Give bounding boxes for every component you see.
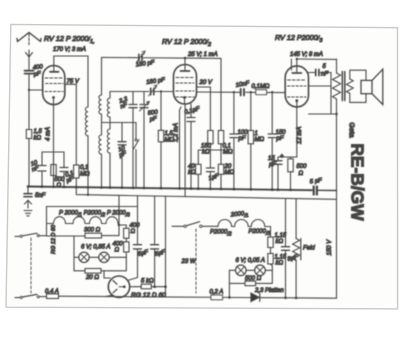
dial lamp L3: [229, 265, 246, 276]
svg-text:Ω: Ω: [299, 171, 304, 177]
resistor 1,15 kOhm upper: [268, 233, 287, 248]
field coil Feld: [293, 199, 316, 300]
svg-text:kΩ: kΩ: [276, 239, 284, 245]
output transformer secondary: [346, 79, 353, 93]
output transformer primary: [333, 59, 341, 114]
capacitor 8 uF electrolytic: [282, 198, 299, 299]
tube V1 grids (dashed): [45, 78, 63, 92]
tube V1 envelope: [43, 66, 65, 105]
capacitor 10 pF (band switch row): [118, 123, 128, 188]
svg-text:300 Ω: 300 Ω: [84, 228, 101, 234]
node V3 grid: [271, 91, 273, 93]
svg-text:5 kΩ: 5 kΩ: [141, 279, 154, 285]
resistor 1,15 kOhm lower: [268, 248, 287, 271]
svg-text:1,2 mA: 1,2 mA: [174, 123, 180, 142]
svg-text:kΩ: kΩ: [276, 261, 284, 267]
mains switch linkage left (dashed): [30, 238, 32, 293]
svg-text:20 V: 20 V: [199, 80, 213, 86]
speaker voice coil: [361, 80, 372, 93]
wire grid node to tube V1: [29, 89, 43, 91]
wire screen V1 to dropper: [65, 84, 77, 165]
svg-text:RG 12 D 60: RG 12 D 60: [51, 224, 57, 254]
tube V1 anode: [50, 56, 59, 72]
fuse 0,4 A: [45, 289, 59, 299]
node transformer bottom: [335, 113, 338, 116]
capacitor smoothing left: [129, 196, 149, 280]
resistor 0,1 MOhm (grid stopper): [252, 84, 270, 94]
tube V3 anode: [292, 58, 301, 73]
svg-text:nF: nF: [321, 72, 328, 78]
svg-text:25 V; 1 mA: 25 V; 1 mA: [187, 52, 218, 58]
dial lamp L1: [74, 252, 89, 262]
wire V2 output row to V3 grid: [197, 91, 286, 94]
mains switch upper pole: [15, 233, 47, 237]
svg-text:500 Ω: 500 Ω: [245, 276, 262, 282]
node V2 anode: [184, 57, 187, 60]
tube V3 top-cap grid stub: [290, 59, 292, 70]
capacitor 100 pF: [230, 92, 248, 189]
wire V3 anode to output transformer: [297, 58, 337, 60]
coil osc upper: [107, 92, 110, 118]
svg-text:Feld: Feld: [303, 246, 315, 252]
svg-text:µF: µF: [269, 162, 276, 168]
diode 23 Platten: [251, 288, 285, 302]
resistor 500 Ohm (cathode): [42, 152, 65, 189]
wire secondary to voice coil: [350, 70, 366, 102]
wire V3 cathode row: [278, 156, 297, 158]
wire lamp feed to rectifier filament: [104, 271, 110, 278]
capacitor 2,2 nF: [118, 92, 137, 188]
svg-text:1,5: 1,5: [34, 129, 43, 135]
node 100pF: [233, 91, 235, 93]
resistor 0,1 MOhm (V2 load): [218, 131, 233, 156]
wire V2 anode to load resistor: [185, 58, 221, 130]
tube V1 cathode: [52, 96, 55, 187]
tube V3 cathode: [295, 99, 298, 157]
earth terminal arrow: [25, 200, 32, 208]
mains switch linkage (dashed): [195, 229, 197, 293]
bottom bus: [59, 296, 337, 298]
coil osc lower: [107, 117, 110, 187]
svg-text:1,5: 1,5: [165, 131, 174, 137]
svg-text:6 V; 0,05 A: 6 V; 0,05 A: [236, 258, 265, 264]
coil IFT1 secondary lower: [99, 114, 102, 187]
capacitor 15 uF electrolytic: [268, 154, 284, 190]
svg-text:pF: pF: [148, 116, 157, 123]
resistor grid leak 1,5 kOhm: [26, 90, 42, 187]
svg-text:MΩ: MΩ: [80, 172, 90, 178]
capacitor 400pF (antenna series): [25, 64, 44, 78]
wire heater return to bus: [118, 195, 120, 225]
wire V3 screen to transformer bottom: [309, 85, 332, 87]
svg-text:12 mA: 12 mA: [297, 127, 303, 144]
capacitor 5 uF (bus series): [308, 178, 337, 195]
fuse 0,2 A: [210, 290, 224, 300]
resistor 400 Ohm upper: [119, 223, 140, 238]
rectifier tube RG 12 D 60: [108, 276, 129, 297]
heater return bus: [76, 187, 336, 199]
speaker cone: [372, 69, 383, 104]
dial lamp L2: [89, 252, 126, 262]
svg-text:23 W: 23 W: [181, 259, 197, 265]
wire lamp node to bus: [228, 283, 231, 298]
capacitor 0,1 uF (V2 cathode): [184, 104, 201, 189]
svg-text:pF: pF: [276, 136, 284, 142]
svg-text:RE-B/GW: RE-B/GW: [348, 143, 368, 221]
resistor 500 Ohm (lamp shunt): [229, 270, 272, 285]
svg-text:kΩ: kΩ: [188, 170, 196, 176]
svg-text:Ω: Ω: [115, 248, 120, 254]
svg-text:500: 500: [297, 164, 308, 170]
capacitor smoothing right: [151, 196, 167, 288]
transformer core: [342, 72, 345, 101]
svg-text:Geta: Geta: [348, 122, 355, 137]
svg-text:0,1: 0,1: [80, 165, 88, 171]
resistor 20 MOhm: [218, 150, 234, 189]
node heater bus start: [87, 194, 89, 196]
tube V2 heater stem: [184, 104, 186, 197]
wire osc tap row: [102, 122, 137, 124]
dial lamp L4: [246, 265, 272, 276]
svg-text:MΩ: MΩ: [223, 150, 233, 156]
tube V2 cathode: [180, 96, 186, 188]
resistor 400 Ohm lower: [113, 238, 130, 257]
ground bus (chassis): [28, 187, 312, 191]
mains switch lower pole: [15, 294, 47, 298]
wire grid row V2: [110, 91, 149, 93]
resistor 150 kOhm: [201, 131, 213, 156]
svg-text:145 V; 8 mA: 145 V; 8 mA: [290, 52, 323, 58]
svg-text:pF: pF: [32, 71, 41, 78]
tube V2 anode: [181, 58, 190, 71]
bus junction dots: [27, 185, 292, 191]
wire transformer bottom row: [309, 113, 337, 115]
capacitor 5 nF (tone): [309, 64, 332, 114]
coil IFT1 secondary upper: [99, 95, 102, 114]
svg-text:0,2 A: 0,2 A: [210, 290, 224, 296]
resistor 5 kOhm (output): [130, 279, 166, 289]
svg-text:Ω: Ω: [131, 229, 136, 235]
svg-text:MΩ: MΩ: [225, 170, 235, 176]
capacitor trimmer 500 pF: [140, 92, 159, 189]
capacitor 10nF (screen cluster): [30, 152, 46, 187]
antenna: [17, 33, 41, 70]
resistor 1,5 MOhm (grid leak V2): [158, 90, 174, 188]
wire top row (AVC line tube1 to tube2 grid cap): [102, 56, 184, 59]
wire join row y150: [198, 149, 223, 151]
resistor 0,1 MOhm (screen dropper): [74, 165, 90, 187]
svg-text:20 Ω: 20 Ω: [85, 275, 99, 281]
heater winding row 2: [210, 211, 271, 238]
wire B- vertical: [164, 196, 167, 297]
resistor 20 Ohm: [74, 236, 126, 281]
svg-text:kΩ: kΩ: [34, 136, 42, 142]
heater box outline: [47, 207, 138, 237]
capacitor 180 pF (grid coupling V2): [146, 77, 174, 96]
svg-text:2,3 Platten: 2,3 Platten: [254, 288, 284, 294]
wire IFT1 secondary top to V2 anode line: [101, 58, 103, 96]
node grid V1: [28, 89, 30, 91]
capacitor 0,1 uF (cathode bypass): [60, 152, 75, 187]
svg-text:4 mA: 4 mA: [46, 127, 52, 141]
svg-text:pF: pF: [238, 136, 246, 142]
heater winding P2000/1 P2000/2 P2000/3: [48, 211, 131, 226]
svg-text:MΩ: MΩ: [255, 137, 265, 143]
switch pole 2 (top of winding row2): [172, 222, 218, 228]
resistor 500 Ohm (V3 cathode): [288, 157, 307, 190]
capacitor 1 uF: [206, 150, 220, 189]
capacitor 180 pF top row (AVC): [135, 51, 155, 68]
tube V2 envelope: [174, 65, 197, 105]
tube V3 grids (dashed): [288, 80, 307, 97]
svg-text:RG 12 D 60: RG 12 D 60: [131, 292, 166, 299]
svg-text:5nF: 5nF: [35, 193, 46, 199]
ground symbol: [24, 211, 32, 216]
switch wave change: [134, 123, 140, 188]
svg-text:+: +: [280, 154, 284, 160]
resistor 300 Ohm: [47, 225, 120, 238]
wire V1 anode to IFT1: [54, 56, 88, 107]
wire V2 diode plate to resistor row: [197, 87, 211, 131]
tube V2 grids (dashed): [176, 78, 194, 98]
node heater string return: [118, 224, 121, 227]
tube V3 envelope: [285, 66, 308, 107]
resistor 40 kOhm: [188, 150, 201, 189]
coil IFT1 primary: [85, 107, 88, 195]
wire antenna to grid node: [28, 75, 30, 90]
svg-text:150 V: 150 V: [327, 239, 333, 256]
node 1 MOhm: [250, 91, 252, 93]
capacitor 150 pF: [268, 92, 286, 190]
svg-text:6 V; 0,85 A: 6 V; 0,85 A: [81, 245, 110, 251]
resistor 1 MOhm: [248, 92, 264, 189]
svg-text:0,1MΩ: 0,1MΩ: [252, 84, 270, 90]
svg-text:0,4 A: 0,4 A: [45, 289, 59, 295]
wire rectifier to bottom bus: [106, 295, 113, 296]
capacitor 5 nF (earth): [24, 187, 46, 200]
svg-text:170 V; 3 mA: 170 V; 3 mA: [53, 47, 86, 53]
wire right vertical main: [336, 114, 338, 298]
capacitor 10 nF (coupling): [235, 81, 250, 96]
